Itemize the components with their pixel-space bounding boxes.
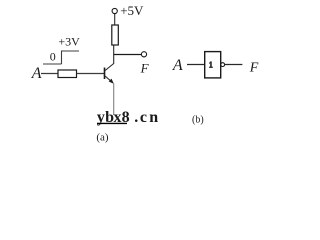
label 1 inside gate: [209, 61, 213, 67]
transistor Q1 collector lead: [105, 55, 114, 72]
svg-text:+5V: +5V: [120, 3, 144, 18]
wire input to gate box: [187, 64, 205, 66]
wire base input left segment: [41, 73, 58, 75]
watermark underline: [97, 122, 127, 124]
transistor Q1 base bar: [104, 68, 106, 80]
wire collector to output F: [114, 54, 142, 56]
svg-text:0: 0: [50, 50, 56, 64]
gate output inversion bubble: [221, 63, 225, 67]
svg-text:+3V: +3V: [58, 34, 80, 48]
svg-text:(a): (a): [96, 131, 109, 143]
svg-text:F: F: [140, 60, 150, 75]
svg-text:A: A: [172, 57, 183, 74]
terminal circle +5V: [112, 8, 117, 13]
transistor Q1 emitter lead with arrow: [105, 76, 113, 83]
wire gate output to F: [225, 64, 243, 66]
wire base input right segment: [77, 73, 105, 75]
wire emitter to ground area: [113, 84, 115, 116]
svg-text:A: A: [31, 65, 42, 82]
input waveform rising edge and high level: [62, 51, 80, 64]
resistor Rb (base resistor): [58, 70, 77, 78]
svg-text:F: F: [249, 60, 259, 75]
wire resistor Rc to +5V terminal: [114, 14, 116, 25]
resistor Rc (collector resistor): [112, 25, 119, 45]
transistor Q1 emitter arrowhead: [109, 79, 114, 84]
gate U1 inverter box: [205, 52, 221, 78]
terminal circle F output: [141, 52, 146, 57]
svg-text:(b): (b): [192, 115, 204, 126]
wire collector junction to resistor Rc: [113, 45, 115, 55]
input waveform low level line: [43, 63, 62, 65]
